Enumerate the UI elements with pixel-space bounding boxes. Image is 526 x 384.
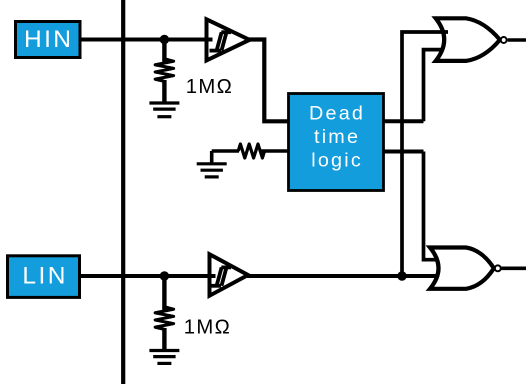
gate NOR1 (high side) bbox=[436, 18, 500, 61]
wire GND2 to resistor R3 bbox=[212, 149, 239, 153]
node A junction on LIN wire bbox=[397, 271, 406, 280]
op-amp U1 Schmitt trigger HIN bbox=[207, 19, 250, 60]
U2 hysteresis symbol bbox=[210, 267, 232, 285]
wire net1 vertical to NOR1 lower input bbox=[424, 50, 443, 122]
wire U2 output to NOR2 lower input bbox=[247, 274, 437, 278]
U1 hysteresis symbol bbox=[210, 32, 232, 50]
wire NOR2 output bbox=[501, 266, 526, 270]
wire resistor R2 top stub bbox=[162, 276, 166, 310]
wire net A vertical (LIN buffer to NOR1 upper input) bbox=[402, 32, 448, 276]
resistor R2 1Mohm bbox=[155, 307, 173, 330]
wire LIN input bbox=[79, 274, 210, 278]
wire U2 input nub bbox=[207, 274, 216, 278]
node LIN junction bbox=[160, 271, 169, 280]
wire U1 input nub bbox=[204, 38, 213, 42]
node HIN junction bbox=[160, 35, 169, 44]
svg-text:1MΩ: 1MΩ bbox=[186, 76, 233, 98]
op-amp U2 Schmitt trigger LIN bbox=[210, 254, 249, 296]
svg-text:1MΩ: 1MΩ bbox=[184, 317, 231, 339]
wire resistor R1 bottom stub bbox=[162, 80, 166, 103]
ground GND3 bbox=[149, 351, 179, 364]
svg-text:Dead: Dead bbox=[309, 103, 365, 125]
wire vertical bus line left bbox=[121, 0, 125, 384]
svg-text:LIN: LIN bbox=[22, 263, 68, 290]
svg-text:HIN: HIN bbox=[24, 26, 73, 53]
wire net2 vertical to NOR2 upper input bbox=[424, 152, 438, 260]
wire R3 to dead time logic bbox=[260, 149, 289, 153]
svg-text:logic: logic bbox=[311, 150, 363, 172]
gate NOR1 output bubble bbox=[501, 37, 507, 43]
ground GND2 (dead time reference) bbox=[197, 164, 227, 177]
wire U1 output to dead time logic bbox=[248, 40, 289, 122]
resistor R3 bbox=[238, 144, 264, 158]
wire NOR1 output bbox=[508, 38, 526, 42]
resistor R1 1Mohm bbox=[155, 59, 173, 82]
dead time logic block U3 bbox=[289, 94, 384, 191]
wire resistor R1 top stub bbox=[162, 40, 166, 63]
gate NOR2 (low side) bbox=[430, 248, 494, 289]
wire dead time logic upper output bbox=[384, 119, 424, 123]
wire resistor R2 bottom stub bbox=[162, 328, 166, 351]
wire HIN input bbox=[80, 38, 207, 42]
wire dead time logic lower output bbox=[384, 150, 424, 154]
ground GND1 bbox=[149, 103, 179, 117]
wire GND2 stub bbox=[210, 151, 214, 164]
node HIN terminal box bbox=[16, 22, 81, 58]
node LIN terminal box bbox=[8, 256, 80, 298]
svg-text:time: time bbox=[314, 126, 360, 148]
gate NOR2 output bubble bbox=[495, 265, 501, 271]
